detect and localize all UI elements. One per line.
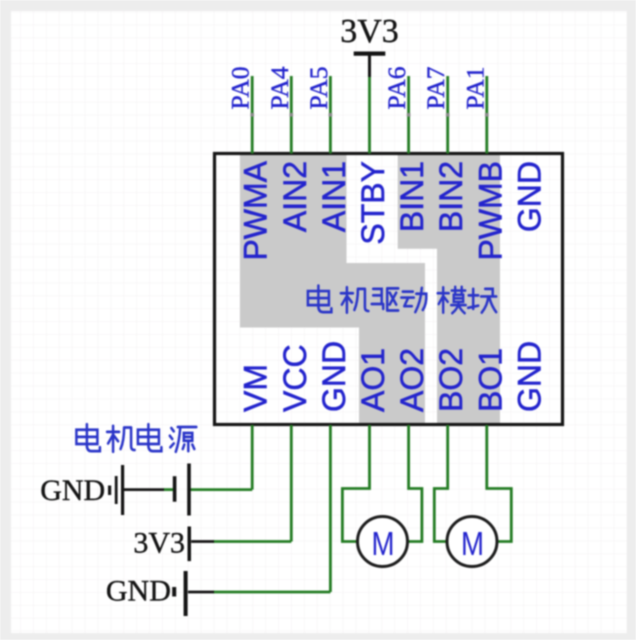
GND flag bottom stub	[172, 587, 176, 597]
power flag 3V3 left pin stub	[191, 540, 214, 543]
svg-text:GND: GND	[511, 341, 547, 412]
svg-text:AO2: AO2	[394, 348, 430, 412]
svg-text:GND: GND	[40, 474, 105, 507]
svg-text:PA5: PA5	[304, 66, 333, 109]
module body shade right	[398, 155, 500, 423]
svg-text:STBY: STBY	[355, 161, 391, 245]
svg-text:PA4: PA4	[265, 66, 294, 109]
wire pin AIN2	[290, 76, 293, 154]
svg-text:M: M	[461, 526, 484, 563]
svg-text:AIN1: AIN1	[316, 161, 352, 232]
svg-text:GND: GND	[316, 341, 352, 412]
svg-text:AO1: AO1	[355, 348, 391, 412]
svg-text:3V3: 3V3	[340, 13, 399, 50]
svg-text:PWMA: PWMA	[238, 160, 274, 260]
wire pin BIN2	[446, 76, 449, 154]
battery BT1 plate long	[187, 464, 191, 516]
battery BT1 plate short	[173, 476, 177, 502]
module body shade left	[240, 155, 425, 423]
wire VCC vertical	[290, 425, 293, 542]
wire VCC horizontal to 3V3	[213, 540, 291, 543]
module U1 box	[215, 154, 563, 425]
wire AO2 to motor M1	[407, 425, 422, 542]
wire VM horizontal to battery	[190, 488, 252, 491]
wire pin AIN1	[329, 76, 332, 154]
GND flag bottom pin stub	[188, 591, 214, 594]
pin junction dots top	[250, 113, 488, 117]
svg-text:VCC: VCC	[277, 344, 313, 412]
wire GND horizontal to GND flag	[213, 591, 330, 594]
svg-text:PA0: PA0	[226, 66, 255, 109]
wire BO2 to motor M2	[434, 425, 448, 542]
svg-text:3V3: 3V3	[133, 527, 185, 560]
svg-text:PA1: PA1	[460, 66, 489, 109]
wire pin STBY	[368, 77, 371, 154]
svg-text:PA7: PA7	[421, 66, 450, 109]
svg-text:BO2: BO2	[433, 348, 469, 412]
motor M2	[447, 517, 497, 567]
svg-text:GND: GND	[511, 161, 547, 232]
GND flag left stub	[108, 486, 111, 496]
wire pin PWMB	[485, 76, 488, 154]
GND flag left bar tall	[121, 465, 124, 515]
power flag 3V3 left bar	[188, 527, 192, 562]
wire pin BIN1	[407, 76, 410, 154]
svg-text:BIN1: BIN1	[394, 161, 430, 232]
GND flag left bar mid	[115, 476, 118, 504]
svg-text:BO1: BO1	[472, 348, 508, 412]
module title 电机驱动模块	[308, 286, 496, 314]
svg-text:AIN2: AIN2	[277, 161, 313, 232]
wire battery to GND flag	[164, 488, 174, 491]
wire AO1 to motor M1	[342, 425, 369, 542]
svg-text:GND: GND	[106, 575, 171, 608]
wire VM vertical	[251, 425, 254, 490]
wire pin PWMA	[251, 76, 254, 154]
motor M1	[358, 517, 408, 567]
wire BO1 to motor M2	[487, 425, 512, 542]
svg-text:VM: VM	[238, 364, 274, 412]
label 电机电源	[76, 424, 196, 452]
svg-text:BIN2: BIN2	[433, 161, 469, 232]
wire GND vertical	[329, 425, 332, 592]
svg-text:PWMB: PWMB	[472, 161, 508, 261]
GND flag left pin	[124, 488, 164, 491]
svg-text:PA6: PA6	[382, 66, 411, 109]
GND flag bottom bar	[184, 571, 188, 616]
svg-text:M: M	[372, 526, 395, 563]
